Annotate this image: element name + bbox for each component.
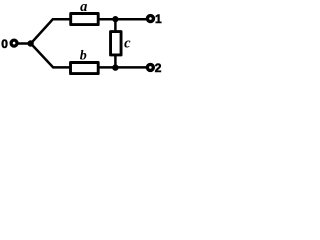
wire: node 0 to top rail via Y split xyxy=(18,19,146,43)
terminal 1 xyxy=(147,16,153,22)
wire: Y split to bottom rail xyxy=(31,44,146,68)
svg-text:0: 0 xyxy=(1,37,8,51)
svg-text:b: b xyxy=(80,49,87,64)
terminal 2 xyxy=(147,64,153,70)
svg-text:1: 1 xyxy=(155,12,162,26)
junction wedge at Y split xyxy=(27,40,33,46)
svg-text:a: a xyxy=(80,0,87,15)
wire: stub top rail to resistor c xyxy=(114,19,117,67)
resistor c xyxy=(111,32,122,55)
svg-text:2: 2 xyxy=(155,61,162,75)
junction dot top xyxy=(112,16,118,22)
resistor b xyxy=(71,63,99,74)
svg-text:c: c xyxy=(124,35,131,51)
resistor a xyxy=(71,14,99,25)
junction dot bottom xyxy=(112,64,118,70)
terminal 0 xyxy=(11,40,17,46)
